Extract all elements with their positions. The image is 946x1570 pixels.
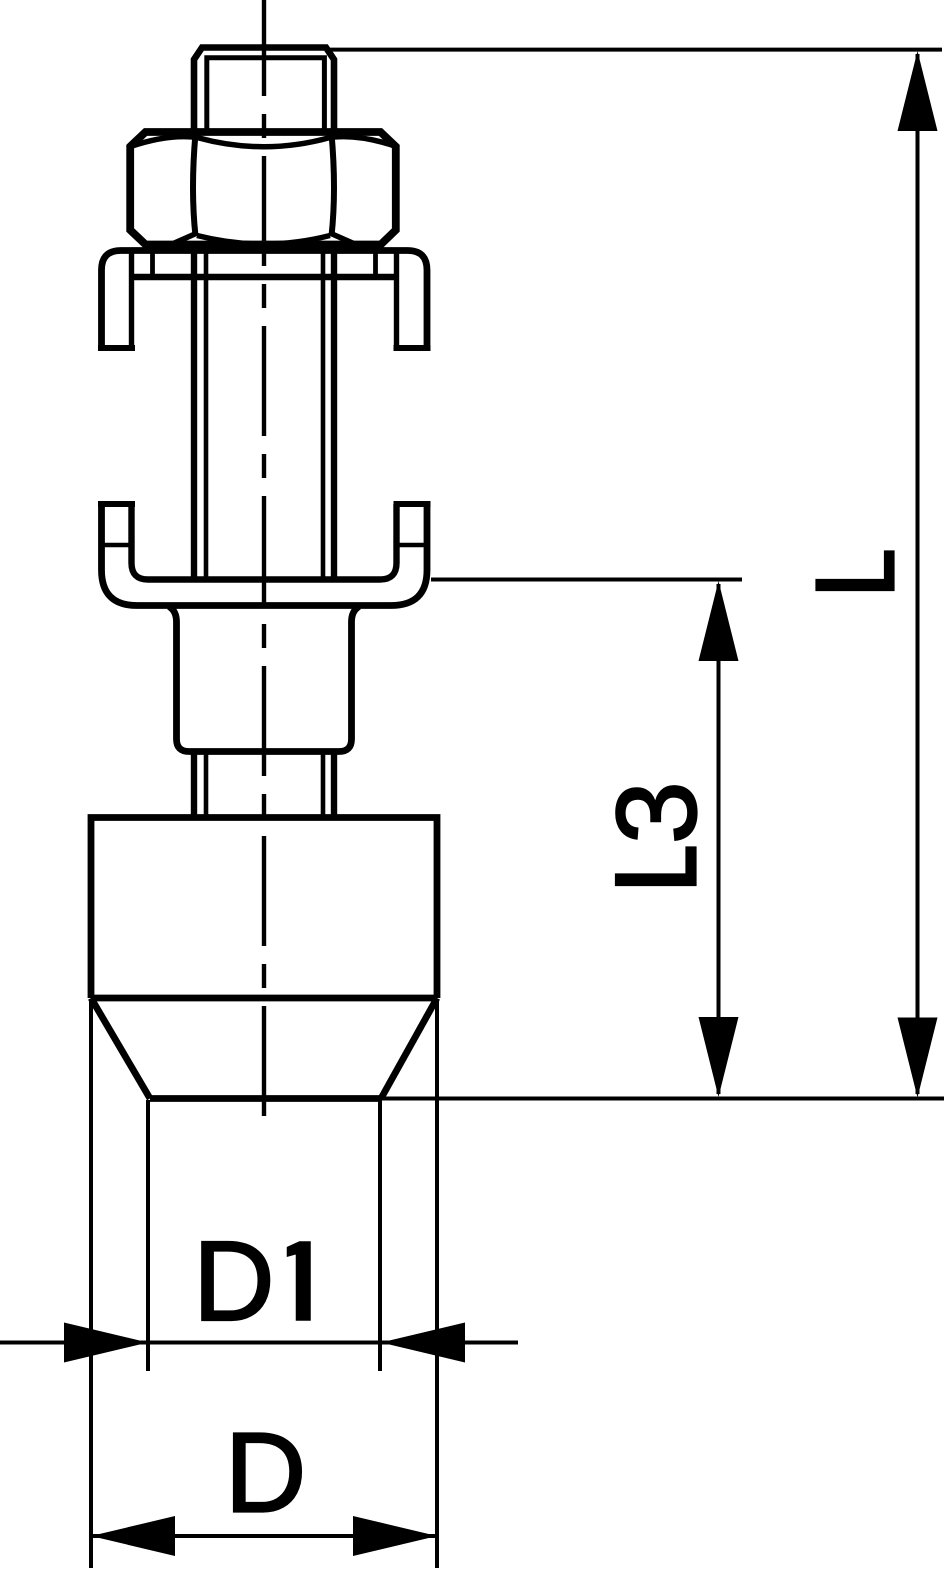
arrowhead L3 bottom <box>699 1017 739 1097</box>
foot bottom line <box>150 1095 381 1102</box>
hex nut top middle chamfer arc <box>197 138 330 147</box>
threaded stud inner thread lines <box>207 58 325 133</box>
extension line D1 left <box>146 1100 150 1371</box>
hex nut left face line <box>193 134 196 237</box>
hex nut right face line <box>332 134 335 237</box>
washer 2 right flange top cap <box>394 501 431 507</box>
washer 1 band bottom line <box>132 274 397 281</box>
wire extension line top (bolt top to L dimension) <box>330 48 942 52</box>
hex nut bottom middle chamfer arc <box>197 236 330 245</box>
threaded rod outer edges (nut to washer 2) <box>191 252 197 578</box>
washer 1 (cup washer under nut, flanges down) top plate and outer edges <box>102 251 428 349</box>
arrowhead L top <box>898 51 938 131</box>
label L3 <box>616 847 697 886</box>
foot taper left <box>91 998 150 1099</box>
arrowhead D right <box>353 1516 437 1556</box>
washer 1 right bend tick <box>373 251 378 277</box>
center line <box>262 0 266 1134</box>
hex nut bottom right chamfer leg <box>331 234 356 245</box>
washer 1 right flange inner edge <box>394 252 399 348</box>
dimension D1 line <box>0 1341 518 1345</box>
threaded rod inner thread lines (nut to washer 2) <box>204 252 209 578</box>
extension line D1 right <box>378 1100 382 1371</box>
rod outer edges (body to foot) <box>191 752 197 817</box>
dimension L line <box>916 54 920 1094</box>
arrowhead L3 top <box>699 581 739 661</box>
wire extension line bottom right (foot bottom to dims) <box>381 1097 944 1101</box>
extension line D right <box>435 1000 439 1568</box>
wire extension line L3 top <box>431 578 742 582</box>
arrowhead L bottom <box>898 1018 938 1098</box>
washer 1 right flange bottom cap <box>394 345 431 351</box>
washer 1 left flange bottom cap <box>98 345 135 351</box>
washer 2 left flange top cap <box>98 501 135 507</box>
arrowhead D left <box>91 1516 175 1556</box>
hex nut bottom left chamfer leg <box>171 234 196 245</box>
washer 2 left bend tick <box>102 543 132 548</box>
spindle body with neck <box>169 607 359 752</box>
rod inner thread lines (body to foot) <box>204 752 209 817</box>
hex nut top right chamfer arc <box>334 137 397 147</box>
extension line D left <box>89 1000 93 1568</box>
foot taper right <box>381 998 437 1099</box>
hex nut M outline <box>130 132 396 245</box>
arrowhead D1 right <box>381 1323 465 1363</box>
hex nut top left chamfer arc <box>131 137 194 147</box>
threaded stud top outer outline <box>194 48 334 134</box>
washer 1 left bend tick <box>150 251 155 277</box>
svg-text:D: D <box>225 1410 307 1536</box>
svg-text:D: D <box>193 1218 275 1344</box>
washer 1 left flange inner edge <box>129 252 134 348</box>
foot mid line <box>91 995 437 1002</box>
washer 2 inner edges and band top line <box>132 504 397 580</box>
dimension D line <box>91 1534 437 1538</box>
washer 2 right bend tick <box>397 543 428 548</box>
dimension L3 line <box>717 584 721 1094</box>
svg-text:3: 3 <box>594 781 720 844</box>
washer 2 (cup washer on body, flanges up) outer edges and rounded bottom <box>102 504 428 606</box>
arrowhead D1 left <box>64 1323 148 1363</box>
label L <box>816 551 894 591</box>
foot block outline <box>91 818 437 999</box>
